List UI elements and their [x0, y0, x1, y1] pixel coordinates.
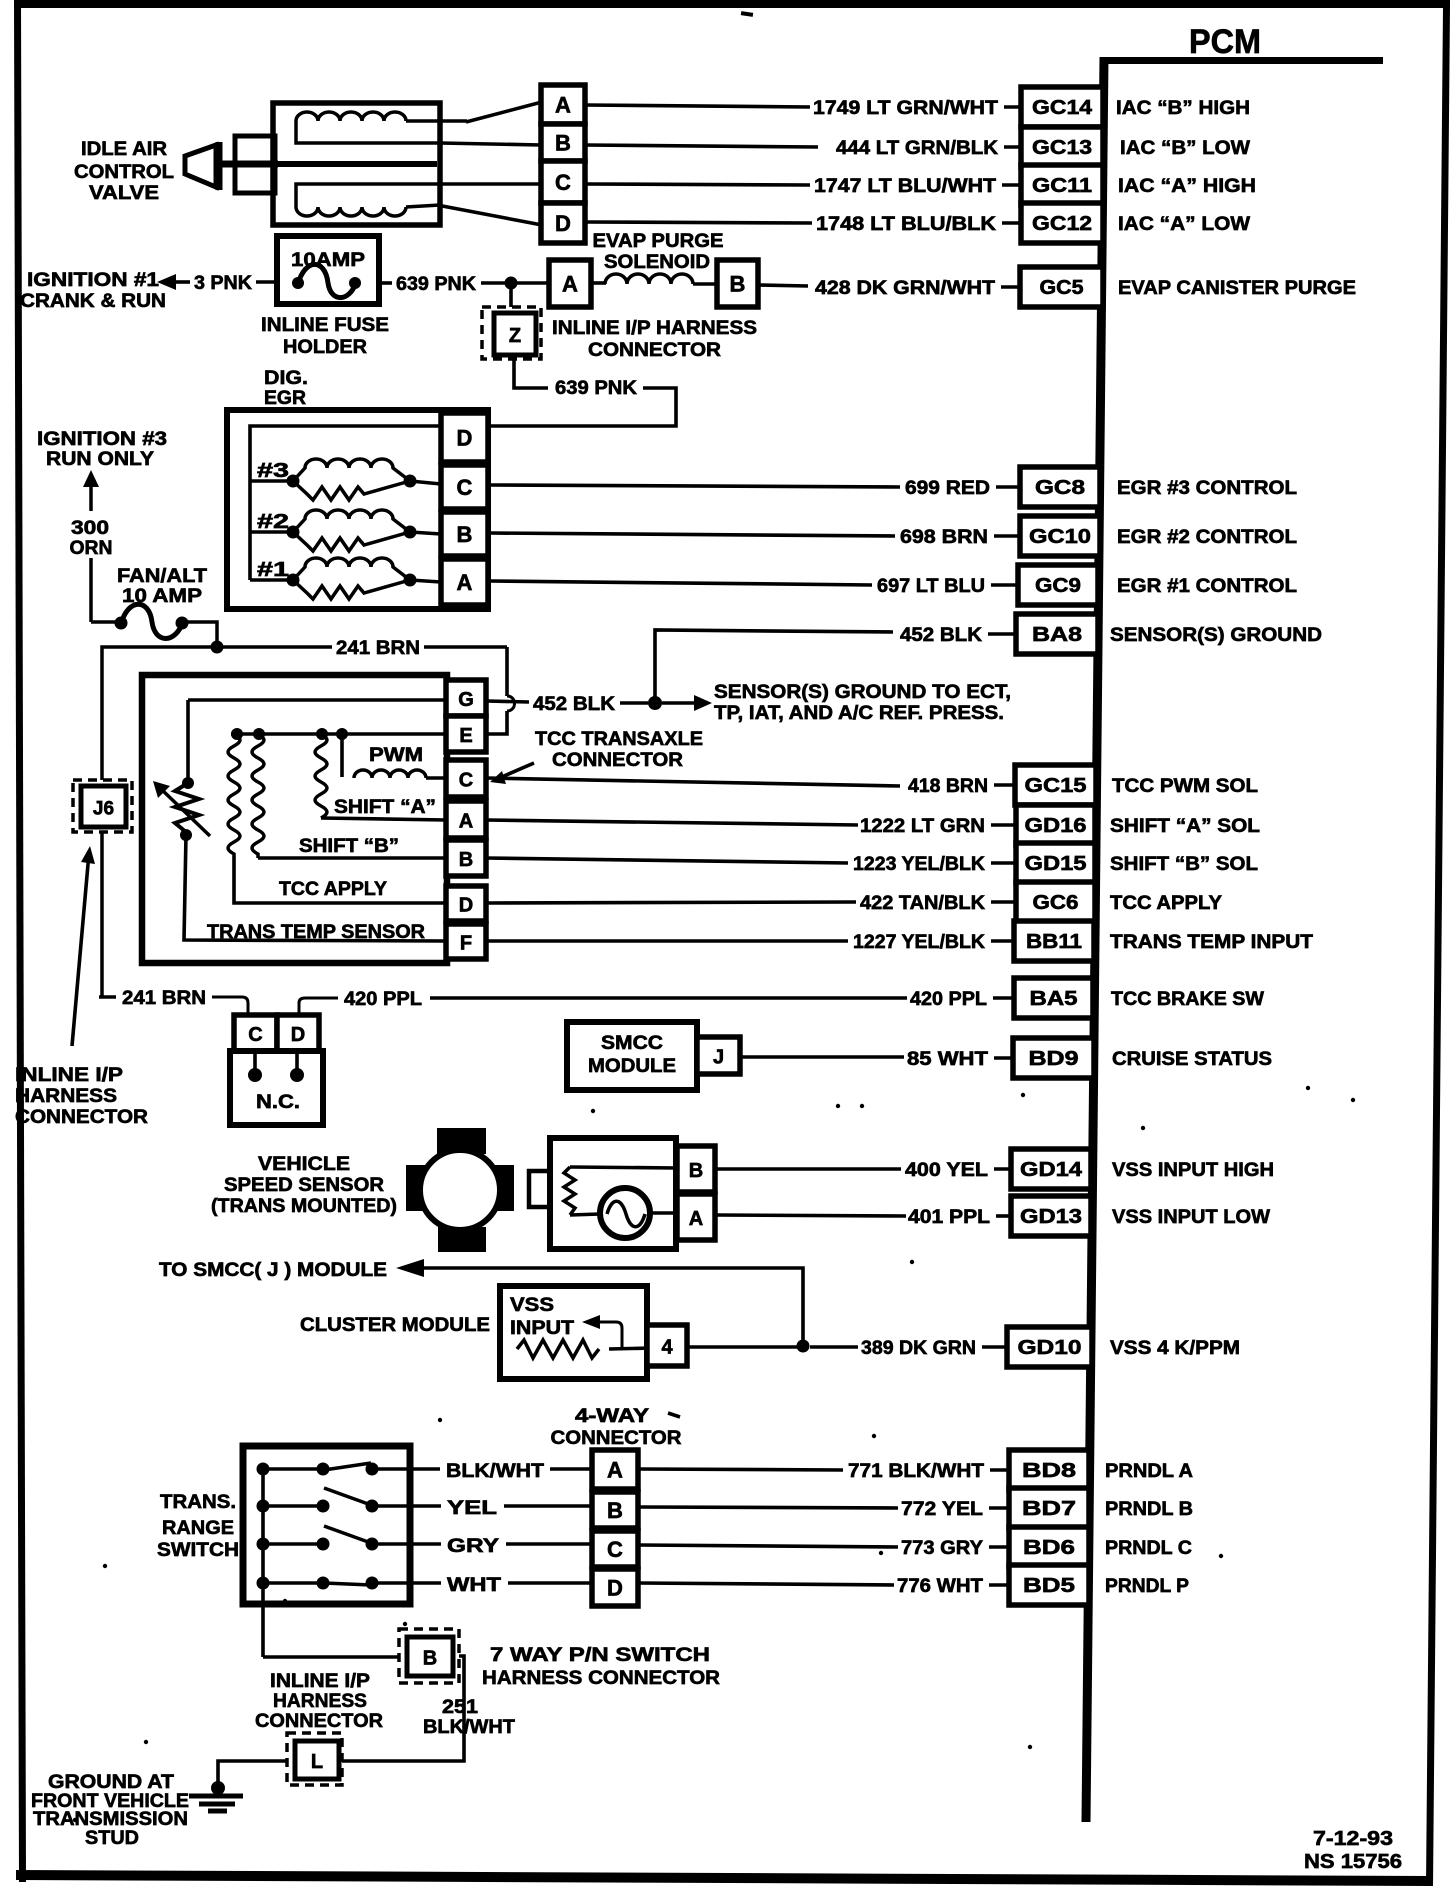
VSS pickup coil — [564, 1167, 575, 1215]
svg-text:CONNECTOR: CONNECTOR — [551, 1428, 682, 1449]
svg-text:J6: J6 — [93, 799, 114, 820]
svg-text:C: C — [607, 1537, 623, 1562]
trans range switch box — [243, 1446, 410, 1604]
svg-text:TCC APPLY: TCC APPLY — [1110, 893, 1222, 914]
EGR stub #3 — [250, 479, 293, 483]
IAC winding A (bottom coil) — [296, 207, 406, 216]
svg-text:STUD: STUD — [85, 1828, 139, 1849]
wire junction to 389 DK GRN label — [810, 1345, 858, 1349]
inline connector J6 dashed outline — [73, 780, 132, 832]
wire 452 BLK up to BA8 — [655, 630, 893, 703]
wire stub to BD6 — [989, 1545, 1009, 1549]
svg-text:INLINE I/P: INLINE I/P — [15, 1065, 123, 1086]
svg-text:DIG.: DIG. — [264, 368, 308, 389]
svg-text:A: A — [689, 1208, 703, 1230]
wire fuse to 639 PNK — [379, 281, 392, 285]
PCM connector BA8 — [1016, 614, 1098, 654]
svg-text:452 BLK: 452 BLK — [900, 625, 982, 646]
cluster input resistor — [517, 1340, 599, 1358]
svg-text:418 BRN: 418 BRN — [908, 776, 988, 797]
EGR connector pin A — [441, 559, 488, 605]
PCM connector GC8 — [1020, 467, 1100, 507]
wire 420 PPL to BA5 — [430, 996, 907, 1000]
svg-text:IAC “A” HIGH: IAC “A” HIGH — [1118, 176, 1256, 197]
arrowhead ignition feed — [157, 274, 176, 290]
svg-text:GD14: GD14 — [1020, 1159, 1083, 1181]
wire pin D to 420 PPL — [299, 998, 338, 1015]
svg-text:VALVE: VALVE — [89, 183, 159, 204]
svg-text:C: C — [248, 1024, 262, 1046]
bus node 2 — [253, 728, 265, 740]
shift A solenoid coil — [315, 734, 327, 818]
IAC valve stem — [216, 161, 278, 168]
svg-text:639 PNK: 639 PNK — [396, 274, 476, 295]
VSS sensor body — [550, 1138, 676, 1249]
wire 1227 YEL/BLK to BB11 — [486, 939, 848, 943]
NC connector pin D — [277, 1015, 319, 1051]
svg-text:C: C — [459, 770, 473, 792]
cluster internal arrow wire — [592, 1322, 622, 1349]
svg-text:10AMP: 10AMP — [291, 250, 365, 271]
wire shift B to pin B — [258, 856, 446, 860]
fuse terminal right — [349, 277, 361, 289]
svg-text:401 PPL: 401 PPL — [908, 1207, 990, 1228]
page border top — [14, 0, 1450, 8]
PCM connector BD9 — [1013, 1038, 1094, 1078]
TCC apply solenoid coil — [228, 734, 240, 856]
trans temp sensor top node — [182, 777, 194, 789]
svg-text:INPUT: INPUT — [510, 1318, 574, 1339]
ground stud node — [211, 1781, 225, 1795]
svg-text:300: 300 — [71, 518, 109, 539]
svg-text:1222 LT GRN: 1222 LT GRN — [860, 816, 985, 837]
svg-text:BD8: BD8 — [1022, 1460, 1076, 1482]
switch row P2 — [263, 1504, 323, 1508]
EGR solenoid 3 coil and resistor — [293, 459, 410, 481]
wire 639 PNK to EVAP A — [481, 281, 549, 285]
svg-text:EVAP PURGE: EVAP PURGE — [593, 231, 724, 252]
svg-text:RANGE: RANGE — [162, 1518, 234, 1539]
svg-text:1223 YEL/BLK: 1223 YEL/BLK — [853, 854, 985, 875]
inline connector Z dashed outline — [482, 307, 541, 359]
wire 241 BRN below J6 — [100, 832, 104, 997]
svg-text:TRANS TEMP INPUT: TRANS TEMP INPUT — [1110, 932, 1313, 953]
wire arrow to 3 PNK — [174, 280, 190, 284]
svg-text:CONNECTOR: CONNECTOR — [255, 1711, 383, 1732]
wire stub to GD16 — [991, 823, 1016, 827]
scan specks — [103, 1564, 107, 1568]
NC pin C lead — [253, 1051, 257, 1070]
shift B solenoid coil — [252, 734, 264, 858]
svg-text:639 PNK: 639 PNK — [555, 378, 637, 399]
svg-text:3 PNK: 3 PNK — [194, 273, 252, 294]
bus node 3 — [316, 728, 328, 740]
junction 389 DK GRN — [797, 1340, 810, 1353]
svg-text:PWM: PWM — [369, 745, 423, 766]
VSS pin B — [677, 1146, 715, 1192]
wire to trans temp sensor — [186, 700, 190, 783]
svg-text:(TRANS MOUNTED): (TRANS MOUNTED) — [211, 1196, 397, 1217]
svg-text:B: B — [607, 1498, 623, 1523]
svg-text:428 DK GRN/WHT: 428 DK GRN/WHT — [815, 278, 995, 299]
wire IAC D to connector — [437, 205, 542, 225]
EGR connector pin D — [441, 413, 488, 462]
svg-text:BD6: BD6 — [1023, 1537, 1075, 1559]
svg-text:GC6: GC6 — [1033, 892, 1079, 914]
ground symbol — [189, 1794, 243, 1799]
svg-text:SPEED SENSOR: SPEED SENSOR — [224, 1175, 384, 1196]
4-way pin C — [592, 1531, 638, 1567]
NC connector body — [230, 1051, 323, 1125]
svg-text:BLK/WHT: BLK/WHT — [423, 1717, 515, 1738]
PCM connector BA5 — [1014, 978, 1093, 1018]
TCC pin A — [446, 801, 486, 838]
wire 444 to GC13 — [585, 145, 818, 147]
svg-text:WHT: WHT — [447, 1575, 501, 1596]
TCC pin E — [446, 716, 486, 752]
svg-text:TCC TRANSAXLE: TCC TRANSAXLE — [535, 729, 703, 750]
svg-text:IDLE AIR: IDLE AIR — [81, 139, 167, 160]
VSS sensor nose — [529, 1171, 550, 1207]
7-way harness connector B dashed outline — [399, 1629, 459, 1683]
TCC internal supply bus to pin E — [231, 732, 446, 736]
switch row P1 — [263, 1467, 323, 1471]
arrowhead ignition #3 — [83, 470, 99, 487]
svg-text:241 BRN: 241 BRN — [336, 638, 420, 659]
wire junction down to Z — [509, 283, 513, 307]
IAC winding B (top coil) — [296, 112, 406, 121]
wire 428 DK GRN/WHT to GC5 — [758, 285, 808, 286]
cluster pin 4 — [647, 1325, 687, 1366]
VSS rotor — [420, 1150, 500, 1230]
IAC valve collar — [235, 136, 275, 193]
wire 698 BRN to GC10 — [490, 533, 895, 536]
svg-text:85 WHT: 85 WHT — [907, 1049, 988, 1070]
cluster module box — [500, 1286, 647, 1379]
wire 771 BLK/WHT to BD8 — [638, 1469, 843, 1470]
wire EGR#1 to pin A — [410, 580, 441, 582]
wire 400 YEL to GD14 — [715, 1167, 901, 1171]
TCC pin B — [446, 840, 486, 876]
EVAP solenoid coil — [605, 274, 693, 284]
trans temp sensor arrow — [160, 788, 210, 836]
svg-text:VSS: VSS — [510, 1295, 554, 1316]
wire 241 BRN to pin C of NC connector — [212, 997, 248, 1015]
PCM connector GD14 — [1011, 1149, 1091, 1189]
svg-text:BD5: BD5 — [1023, 1575, 1075, 1597]
wire stub to GD15 — [991, 861, 1016, 865]
inline connector L dashed outline — [287, 1733, 342, 1785]
arrowhead cluster VSS input — [582, 1315, 600, 1329]
NC pin D lead — [295, 1051, 299, 1070]
page border right — [1426, 6, 1450, 1886]
wire 1223 YEL/BLK to GD15 — [486, 858, 848, 863]
PCM main vertical line — [1086, 57, 1104, 1822]
wire L to ground — [218, 1761, 287, 1785]
svg-text:EVAP CANISTER PURGE: EVAP CANISTER PURGE — [1118, 278, 1356, 299]
wire trans temp sensor to pin F — [184, 835, 446, 941]
TCC pin F — [446, 924, 486, 959]
VSS coil to AC source — [570, 1214, 600, 1215]
IAC connector pin C — [541, 161, 585, 203]
svg-text:L: L — [311, 1751, 323, 1773]
svg-text:GC5: GC5 — [1040, 277, 1084, 299]
PCM connector BD5 — [1009, 1565, 1089, 1605]
wire 85 WHT to BD9 — [740, 1055, 904, 1059]
PCM connector GC14 — [1021, 87, 1103, 127]
svg-text:INLINE I/P HARNESS: INLINE I/P HARNESS — [552, 318, 757, 339]
wire stub to GC5 — [1001, 285, 1020, 289]
wire stub to BD5 — [989, 1583, 1009, 1587]
wire TCC apply to pin D — [234, 856, 446, 903]
svg-text:HARNESS: HARNESS — [273, 1691, 367, 1712]
wire WHT — [409, 1581, 441, 1585]
svg-text:7-12-93: 7-12-93 — [1313, 1828, 1393, 1850]
wire stub to 241 BRN label lower — [99, 995, 116, 999]
arrow sensor ground — [662, 701, 700, 705]
wire 1749 to GC14 — [585, 105, 810, 107]
trans temp sensor bottom node — [180, 829, 192, 841]
svg-text:BD7: BD7 — [1022, 1498, 1076, 1520]
wire 639 PNK to EGR D — [490, 388, 676, 426]
PCM box top edge — [1103, 57, 1383, 64]
VSS coil to pin B — [570, 1167, 677, 1168]
wire 401 PPL to GD13 — [715, 1215, 906, 1216]
svg-text:TCC PWM SOL: TCC PWM SOL — [1112, 776, 1258, 797]
junction 639 PNK — [505, 277, 518, 290]
wire stub to GC8 — [996, 485, 1020, 489]
PCM connector GC10 — [1020, 516, 1100, 556]
wire YEL — [409, 1504, 441, 1508]
wire stub to GD10 — [982, 1345, 1007, 1349]
wire 773 GRY to BD6 — [638, 1545, 898, 1547]
svg-text:#3: #3 — [257, 460, 289, 482]
IAC nozzle bar — [216, 142, 223, 190]
switch blade row 3 open — [324, 1526, 371, 1543]
wire stub to GC13 — [1004, 145, 1021, 149]
svg-text:B: B — [457, 522, 473, 547]
svg-text:SHIFT “A” SOL: SHIFT “A” SOL — [1110, 816, 1260, 837]
wire 3 PNK to fuse — [256, 280, 277, 284]
switch blade row 4 closed — [324, 1583, 371, 1585]
svg-text:PRNDL A: PRNDL A — [1105, 1461, 1193, 1482]
svg-text:SWITCH: SWITCH — [157, 1540, 239, 1561]
wire 699 RED to GC8 — [490, 485, 900, 487]
svg-text:444 LT GRN/BLK: 444 LT GRN/BLK — [836, 138, 998, 159]
wire EGR#2 to pin B — [410, 532, 441, 534]
svg-text:IGNITION #1: IGNITION #1 — [27, 270, 160, 291]
wire 422 TAN/BLK to GC6 — [486, 902, 856, 903]
svg-text:B: B — [423, 1648, 437, 1670]
svg-text:SENSOR(S) GROUND TO ECT,: SENSOR(S) GROUND TO ECT, — [714, 682, 1011, 703]
wire EGR#3 to pin C — [410, 481, 441, 484]
svg-text:GC12: GC12 — [1032, 213, 1092, 235]
svg-text:IAC “B” LOW: IAC “B” LOW — [1120, 138, 1250, 159]
PCM connector GD16 — [1016, 805, 1095, 845]
svg-text:SENSOR(S) GROUND: SENSOR(S) GROUND — [1110, 625, 1322, 646]
svg-text:CRANK & RUN: CRANK & RUN — [20, 291, 166, 312]
svg-text:INLINE I/P: INLINE I/P — [270, 1671, 370, 1692]
PCM connector GC11 — [1021, 165, 1103, 205]
svg-text:SOLENOID: SOLENOID — [604, 252, 710, 273]
svg-text:FAN/ALT: FAN/ALT — [117, 566, 207, 587]
svg-text:241 BRN: 241 BRN — [122, 988, 206, 1009]
svg-text:A: A — [459, 811, 473, 833]
page border bottom — [16, 1870, 1432, 1886]
wire stub to GC10 — [994, 534, 1020, 538]
4-way pin B — [592, 1492, 638, 1528]
wire 776 WHT to BD5 — [638, 1583, 894, 1585]
svg-text:1747 LT BLU/WHT: 1747 LT BLU/WHT — [814, 176, 996, 197]
svg-text:#2: #2 — [257, 511, 289, 533]
svg-text:D: D — [457, 426, 473, 451]
svg-text:IAC “B” HIGH: IAC “B” HIGH — [1116, 98, 1250, 119]
fan/alt fuse terminal left — [115, 617, 128, 630]
PCM connector BD6 — [1009, 1527, 1089, 1567]
svg-text:CLUSTER MODULE: CLUSTER MODULE — [300, 1315, 490, 1336]
wire stub to GD14 — [994, 1167, 1011, 1171]
bus node 1 — [231, 728, 243, 740]
svg-text:EGR: EGR — [264, 388, 306, 409]
IAC connector pin A — [541, 85, 585, 124]
wire 1748 to GC12 — [585, 222, 812, 223]
arrow to TCC pin C — [497, 763, 534, 779]
inline connector L — [295, 1741, 339, 1779]
PCM connector BD7 — [1009, 1488, 1089, 1528]
svg-text:EGR #3 CONTROL: EGR #3 CONTROL — [1117, 478, 1297, 499]
wire 300 ORN down to fuse — [89, 558, 93, 622]
trans temp sensor variable resistor — [175, 783, 199, 832]
svg-text:CONNECTOR: CONNECTOR — [552, 750, 683, 771]
VSS AC source — [600, 1188, 650, 1238]
page border left — [14, 0, 26, 1882]
SMCC module box — [567, 1022, 697, 1090]
VSS rotor tabs — [437, 1128, 486, 1154]
junction 241 BRN — [211, 641, 224, 654]
wire 241 BRN down — [505, 647, 509, 696]
TCC transaxle block — [142, 675, 447, 963]
TCC pin C — [446, 760, 486, 797]
PCM connector GC12 — [1021, 203, 1103, 243]
IAC valve nozzle triangle — [185, 145, 216, 187]
svg-text:4: 4 — [661, 1337, 673, 1359]
wire 241 BRN down to J6 — [102, 647, 217, 780]
svg-text:GC15: GC15 — [1025, 775, 1087, 797]
4-way pin D — [592, 1569, 638, 1606]
arrowhead trans temp sensor — [153, 781, 170, 798]
PCM connector GD15 — [1016, 843, 1095, 883]
wire Z to 639 PNK lower — [514, 359, 548, 388]
svg-text:422 TAN/BLK: 422 TAN/BLK — [860, 893, 985, 914]
EGR internal feed wire — [250, 426, 441, 580]
svg-text:SMCC: SMCC — [601, 1033, 663, 1054]
svg-text:CONTROL: CONTROL — [74, 162, 174, 183]
svg-text:7 WAY P/N SWITCH: 7 WAY P/N SWITCH — [490, 1645, 710, 1666]
wire switch common to connector B — [263, 1655, 399, 1659]
inline connector Z — [494, 313, 536, 355]
svg-text:Z: Z — [509, 325, 521, 347]
wire 418 BRN to GC15 — [486, 778, 900, 786]
TCC pin D — [446, 886, 486, 921]
switch row P3 — [263, 1542, 323, 1546]
svg-text:TO SMCC( J ) MODULE: TO SMCC( J ) MODULE — [159, 1260, 387, 1281]
wire stub to BD9 — [994, 1056, 1013, 1060]
fuse element FAN/ALT — [121, 604, 183, 638]
arrowhead to J6 — [81, 846, 95, 864]
svg-text:VSS 4 K/PPM: VSS 4 K/PPM — [1110, 1338, 1240, 1359]
wire stub to BA8 — [988, 632, 1016, 636]
svg-text:697 LT BLU: 697 LT BLU — [877, 576, 985, 597]
svg-text:GD16: GD16 — [1025, 815, 1087, 837]
wire pin G to 452 BLK — [487, 701, 529, 702]
svg-text:420 PPL: 420 PPL — [910, 989, 987, 1010]
junction 452 BLK — [648, 696, 662, 710]
svg-text:E: E — [459, 725, 472, 747]
wire GRY — [409, 1542, 441, 1546]
svg-text:B: B — [730, 272, 746, 297]
svg-text:IGNITION #3: IGNITION #3 — [37, 429, 167, 450]
PCM connector GD13 — [1011, 1196, 1091, 1236]
svg-text:771 BLK/WHT: 771 BLK/WHT — [848, 1461, 984, 1482]
svg-text:4-WAY: 4-WAY — [575, 1406, 649, 1427]
wire 241 BRN to pin E — [487, 711, 507, 734]
SMCC pin J — [697, 1037, 740, 1074]
svg-text:B: B — [459, 849, 473, 871]
svg-text:BB11: BB11 — [1026, 931, 1082, 953]
svg-text:GD15: GD15 — [1025, 853, 1087, 875]
wire fuse to 241 BRN junction — [182, 622, 217, 647]
wire stub to GC14 — [1004, 105, 1021, 109]
switch blade row 1 closed — [324, 1463, 371, 1470]
PCM connector GD10 — [1007, 1327, 1092, 1367]
svg-text:PRNDL B: PRNDL B — [1105, 1499, 1193, 1520]
svg-text:400 YEL: 400 YEL — [905, 1160, 988, 1181]
svg-text:CRUISE STATUS: CRUISE STATUS — [1112, 1049, 1272, 1070]
fuse terminal left — [292, 277, 304, 289]
svg-text:452 BLK: 452 BLK — [533, 694, 615, 715]
svg-text:TRANS TEMP SENSOR: TRANS TEMP SENSOR — [207, 922, 425, 943]
svg-text:D: D — [291, 1024, 305, 1046]
svg-text:TCC BRAKE SW: TCC BRAKE SW — [1111, 989, 1264, 1010]
wire BLK/WHT — [409, 1467, 440, 1471]
switch common bus — [261, 1466, 265, 1657]
svg-text:TP, IAT, AND A/C REF. PRESS.: TP, IAT, AND A/C REF. PRESS. — [714, 703, 1004, 724]
svg-text:C: C — [555, 170, 571, 195]
PCM connector GC6 — [1016, 882, 1095, 922]
wire stub to GC6 — [991, 900, 1016, 904]
svg-text:CONNECTOR: CONNECTOR — [15, 1107, 148, 1128]
svg-text:PCM: PCM — [1189, 23, 1261, 61]
noise mark near 4-WAY — [668, 1413, 680, 1417]
svg-text:GC10: GC10 — [1029, 526, 1091, 548]
EVAP solenoid pin A — [549, 260, 591, 307]
svg-text:A: A — [555, 93, 571, 118]
EGR connector pin C — [441, 465, 488, 509]
resistor to pin 4 — [609, 1348, 652, 1349]
TCC PWM solenoid coil — [354, 770, 426, 778]
EGR solenoid 1 coil and resistor — [293, 558, 410, 580]
svg-text:GC13: GC13 — [1032, 137, 1092, 159]
svg-text:GC8: GC8 — [1035, 477, 1085, 499]
svg-text:GD10: GD10 — [1018, 1337, 1082, 1359]
svg-text:TCC APPLY: TCC APPLY — [279, 879, 387, 900]
wire stub to BA5 — [993, 996, 1014, 1000]
PCM connector GC9 — [1018, 565, 1098, 605]
scan noise tick top center — [741, 11, 753, 17]
EVAP solenoid pin B — [717, 260, 758, 307]
wire 697 LT BLU to GC9 — [490, 581, 872, 585]
wire stub to GC9 — [991, 583, 1018, 587]
